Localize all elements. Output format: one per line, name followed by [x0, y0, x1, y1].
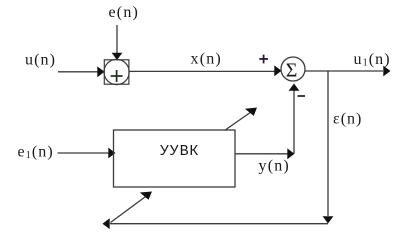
- wire x(n) from S1 to sigma: [129, 65, 282, 76]
- wire u1(n) output arrow: [305, 66, 391, 77]
- block UUVK: [114, 130, 236, 187]
- wire y(n) vertical to sigma: [289, 84, 300, 154]
- svg-text:u1(n): u1(n): [354, 51, 391, 69]
- summing junction S1 (circle): [104, 59, 129, 84]
- wire u(n) input arrow: [58, 66, 105, 77]
- wire e1(n) input arrow: [58, 148, 116, 159]
- svg-text:ε(n): ε(n): [333, 111, 362, 128]
- wire diagonal arrow from bottom line to UUVK box: [111, 192, 153, 223]
- summing junction S1 (square): [104, 60, 129, 84]
- wire bottom feedback horizontal: [103, 218, 329, 229]
- summer U2 sigma circle: [281, 57, 305, 81]
- svg-text:Σ: Σ: [286, 60, 298, 82]
- wire diagonal arrow from UUVK box top: [225, 108, 258, 131]
- svg-text:УУВК: УУВК: [160, 143, 199, 160]
- svg-text:y(n): y(n): [259, 158, 290, 175]
- wire epsilon feedback vertical: [323, 71, 334, 224]
- svg-text:e(n): e(n): [109, 4, 140, 21]
- label plus at sigma input: [259, 55, 268, 64]
- svg-text:u(n): u(n): [25, 52, 56, 69]
- wire e(n) input arrow: [112, 25, 123, 60]
- svg-text:e1(n): e1(n): [18, 144, 54, 162]
- svg-text:x(n): x(n): [191, 51, 222, 68]
- wire y(n) horizontal from UUVK: [235, 148, 295, 159]
- summing junction S1 plus sign: [111, 70, 123, 82]
- label minus at sigma input: [298, 95, 306, 97]
